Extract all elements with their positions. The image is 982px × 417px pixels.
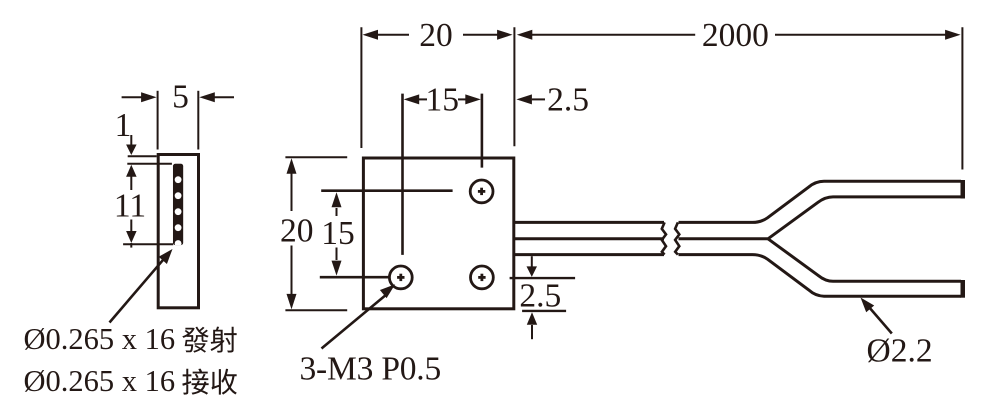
- dim 11 bottom reference line: [123, 243, 173, 245]
- svg-text:1: 1: [115, 107, 132, 144]
- label fiber emit (hanzi 發射): [182, 327, 208, 353]
- dim 2.5 bottom arrow up: [527, 312, 537, 325]
- svg-text:20: 20: [419, 17, 453, 54]
- cable top edge (left of break): [514, 221, 664, 224]
- svg-text:Ø2.2: Ø2.2: [867, 333, 933, 370]
- cable end cap lower branch: [961, 280, 966, 298]
- dim 1 reference line (top edge extended): [128, 155, 157, 157]
- cable bottom edge (right of break, forks down): [679, 255, 962, 297]
- dim 11 arrow down: [130, 220, 132, 233]
- dim 5 extension line right: [197, 91, 199, 150]
- dim 20/2000 shared extension line: [513, 27, 515, 146]
- dim 15 top: left extension line into square (to bottom-left hole): [401, 94, 404, 255]
- mounting hole bottom-left: [389, 266, 412, 289]
- dim 15 top arrow right: [458, 98, 466, 100]
- cable middle line (left of break): [514, 237, 664, 240]
- dim 5 extension line left: [157, 91, 159, 150]
- dim 2.5 bottom arrow down: [531, 256, 533, 267]
- dim 20 left arrow up: [287, 158, 297, 174]
- svg-text:2.5: 2.5: [547, 82, 589, 119]
- svg-text:2.5: 2.5: [519, 277, 561, 314]
- dim 1 arrow down: [130, 135, 132, 146]
- cable break zigzag left: [662, 222, 666, 254]
- cable top edge (right of break, forks up): [679, 181, 962, 222]
- dim 20 left: top extension line: [285, 156, 347, 158]
- dim 20 left arrow down: [291, 246, 293, 295]
- svg-text:3-M3 P0.5: 3-M3 P0.5: [300, 351, 442, 388]
- cable end cap upper branch: [961, 180, 966, 199]
- leader arrow 3-M3: [322, 295, 386, 348]
- fiber strip pointer arrow: [110, 259, 165, 323]
- mounting hole bottom-right: [471, 266, 494, 289]
- dim 20 top arrow right: [463, 34, 498, 36]
- side-view body outline: [158, 155, 198, 308]
- svg-text:15: 15: [426, 82, 460, 119]
- dim 11 top reference line: [127, 163, 172, 165]
- dim 11 arrow up: [126, 165, 137, 177]
- front-view body outline: [363, 158, 513, 309]
- dim 15 left arrow up: [332, 192, 342, 207]
- dim 20 top arrow left: [363, 30, 379, 40]
- cable bottom edge (left of break): [514, 253, 664, 256]
- hole centerline horizontal top: [321, 189, 452, 192]
- mounting hole top-right: [470, 180, 493, 203]
- dim 2.5 bottom: upper reference line: [510, 277, 575, 279]
- dim 15 left arrow down: [336, 248, 338, 261]
- dim 15 top arrow left: [404, 94, 420, 104]
- dim 2.5 top arrow: [516, 94, 532, 104]
- dim 15 top: right extension line (to top-right hole): [481, 94, 484, 168]
- svg-text:Ø0.265 x 16: Ø0.265 x 16: [24, 322, 176, 356]
- svg-text:20: 20: [280, 212, 314, 249]
- dim 5 arrow left: [122, 96, 143, 98]
- svg-text:Ø0.265 x 16: Ø0.265 x 16: [24, 364, 176, 398]
- svg-text:2000: 2000: [702, 17, 769, 54]
- dim 2000 arrow right: [775, 34, 946, 36]
- svg-text:5: 5: [172, 79, 189, 116]
- cable middle line upper fork: [679, 197, 962, 239]
- label fiber receive (hanzi 接收): [182, 369, 208, 395]
- svg-text:11: 11: [114, 187, 146, 224]
- dim 5 arrow right: [214, 96, 235, 98]
- dim 20 left: bottom extension line: [285, 309, 347, 311]
- dim 2.5 bottom: lower reference line: [522, 310, 566, 312]
- dim 2000 right extension line: [961, 27, 963, 169]
- dim 2000 arrow left: [517, 30, 533, 40]
- leader arrow cable diameter: [869, 307, 892, 334]
- cable break zigzag right: [675, 222, 679, 254]
- cable middle line lower fork: [768, 239, 961, 281]
- hole centerline horizontal bottom: [320, 276, 389, 279]
- svg-text:15: 15: [321, 215, 355, 252]
- dim 20 top: left extension line: [360, 27, 362, 148]
- fiber array strip (16x diam 0.265 fibers): [173, 164, 183, 247]
